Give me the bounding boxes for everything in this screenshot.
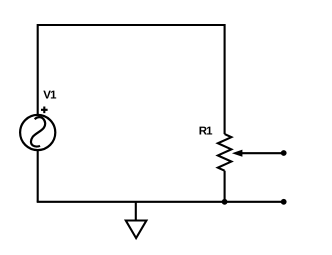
resistor R1 zigzag <box>218 134 232 171</box>
terminal dot upper <box>281 150 287 156</box>
source V1 sine wave <box>31 117 45 146</box>
ground stub <box>135 202 137 221</box>
wire: left bottom segment from source to bottom rail <box>37 150 39 201</box>
terminal dot lower <box>281 199 287 205</box>
ground triangle <box>126 221 147 239</box>
junction dot <box>222 199 228 205</box>
wiper wire to upper terminal <box>241 152 284 154</box>
plus sign polarity mark <box>41 107 48 114</box>
source V1 circle <box>20 115 55 150</box>
wire: bottom rail to lower terminal <box>37 201 284 203</box>
svg-text:R1: R1 <box>199 125 213 137</box>
wire: resistor bottom to rail <box>224 171 226 202</box>
wiper arrow head <box>232 150 243 157</box>
wire: left + top + right side of loop <box>38 25 225 134</box>
svg-text:V1: V1 <box>43 90 57 102</box>
